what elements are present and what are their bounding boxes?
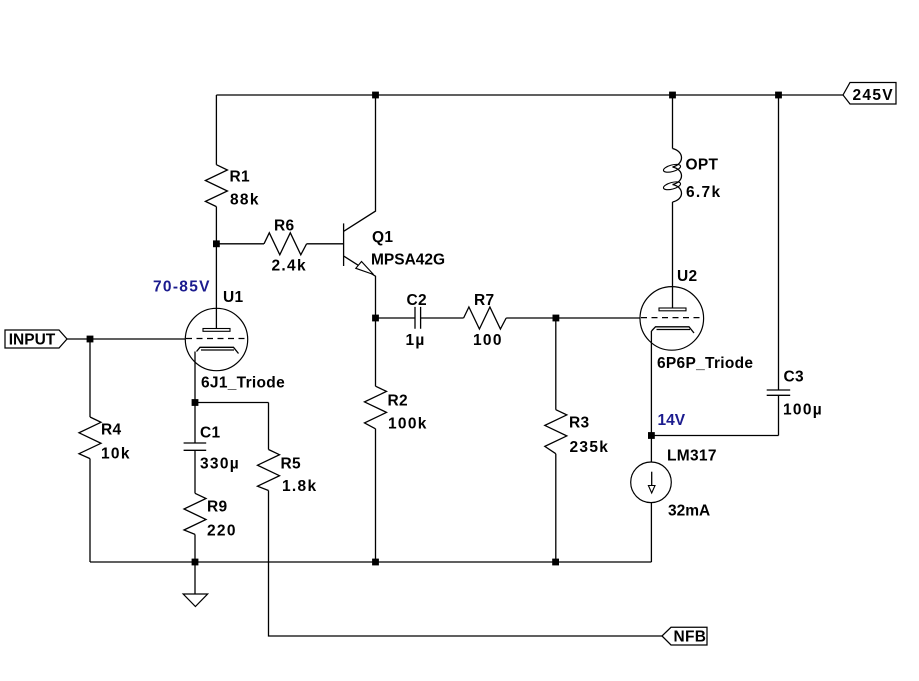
node bottom rail / R2 [372,559,379,566]
svg-text:245V: 245V [853,87,894,104]
svg-text:R3: R3 [569,415,589,432]
flag NFB [662,627,707,645]
capacitor C2 [406,292,427,349]
svg-text:330µ: 330µ [200,456,240,473]
svg-text:R1: R1 [230,169,250,186]
svg-text:C2: C2 [407,292,427,309]
svg-text:R2: R2 [388,393,408,410]
svg-text:6P6P_Triode: 6P6P_Triode [657,355,753,372]
wire R7 to U2 grid [506,317,640,319]
tube U2 6P6P [640,268,753,372]
wire right rail [778,95,780,390]
svg-text:U1: U1 [223,289,243,306]
node U1 cathode junction [192,399,199,406]
node top rail / OPT column [669,92,676,99]
wire R4 column [89,339,91,562]
resistor R6 [264,218,307,275]
wire C3 to 14V row [778,395,780,435]
wire OPT to U2 plate [672,202,674,308]
svg-text:235k: 235k [570,439,610,456]
svg-text:100: 100 [473,332,503,349]
svg-text:C3: C3 [784,369,804,386]
svg-text:100µ: 100µ [783,402,823,419]
node bottom rail / R9 [192,559,199,566]
wire C2 to R7 [421,317,464,319]
svg-text:R7: R7 [474,292,494,309]
svg-text:10k: 10k [101,446,131,463]
resistor R2 [365,386,428,432]
node R1/R6 junction [213,240,220,247]
node emitter / C2 junction [372,315,379,322]
svg-text:6J1_Triode: 6J1_Triode [201,375,285,392]
wire R6 left stub [216,243,264,245]
svg-text:INPUT: INPUT [9,332,56,349]
resistor R9 [184,493,237,539]
inductor OPT [663,149,722,203]
resistor R1 [205,165,259,209]
wire R1 column (top rail to R1, R1 to U1 plate) [215,95,217,329]
svg-text:C1: C1 [200,425,220,442]
svg-text:6.7k: 6.7k [686,184,721,201]
resistor R4 [79,417,131,463]
resistor R5 [258,450,318,496]
svg-text:R6: R6 [274,218,294,235]
svg-text:70-85V: 70-85V [153,279,211,296]
svg-text:1µ: 1µ [406,332,426,349]
node R7/R3 junction [553,315,560,322]
flag 245V [843,83,896,105]
wire R5 to NFB [269,491,663,637]
transistor Q1 [344,95,445,318]
svg-text:100k: 100k [388,416,428,433]
wire R3 column [555,318,557,562]
svg-text:R9: R9 [207,499,227,516]
resistor R7 [464,292,507,349]
resistor R3 [545,410,609,456]
node 14V junction [648,432,655,439]
current source LM317 [631,448,717,520]
node bottom rail / R3 [552,559,559,566]
svg-text:Q1: Q1 [372,229,393,246]
wire 14V to LM317 [650,436,652,463]
svg-text:U2: U2 [677,268,697,285]
svg-text:14V: 14V [658,412,686,429]
svg-text:R5: R5 [281,456,301,473]
flag INPUT [5,330,67,349]
svg-text:R4: R4 [101,422,121,439]
wire R9 to bottom rail [194,534,196,562]
svg-text:LM317: LM317 [667,448,717,465]
ground [183,562,207,607]
capacitor C3 [767,369,823,419]
svg-text:MPSA42G: MPSA42G [371,252,445,269]
wire LM317 to bottom rail [650,503,652,562]
svg-text:OPT: OPT [686,157,719,174]
node top rail / Q1 collector [372,92,379,99]
wire U1 cathode lead [194,352,196,403]
wire cathode to R5 [195,403,269,450]
wire R2 column [375,318,377,562]
wire bottom rail [90,561,651,563]
wire U2 cathode lead [650,331,652,436]
wire R6 to Q1 base [307,243,344,245]
capacitor C1 [184,403,240,494]
wire top rail [216,94,843,96]
node top rail / right rail [775,92,782,99]
wire 14V row [651,435,778,437]
svg-text:32mA: 32mA [668,503,710,520]
svg-text:NFB: NFB [674,629,707,646]
tube U1 6J1 [185,289,285,392]
svg-text:88k: 88k [230,192,260,209]
svg-text:2.4k: 2.4k [272,258,307,275]
svg-text:220: 220 [207,523,237,540]
wire emitter node to C2 [376,317,416,319]
svg-text:1.8k: 1.8k [282,478,317,495]
wire INPUT to U1 grid [67,338,186,340]
wire top rail to OPT [672,95,674,149]
node INPUT junction [87,336,94,343]
